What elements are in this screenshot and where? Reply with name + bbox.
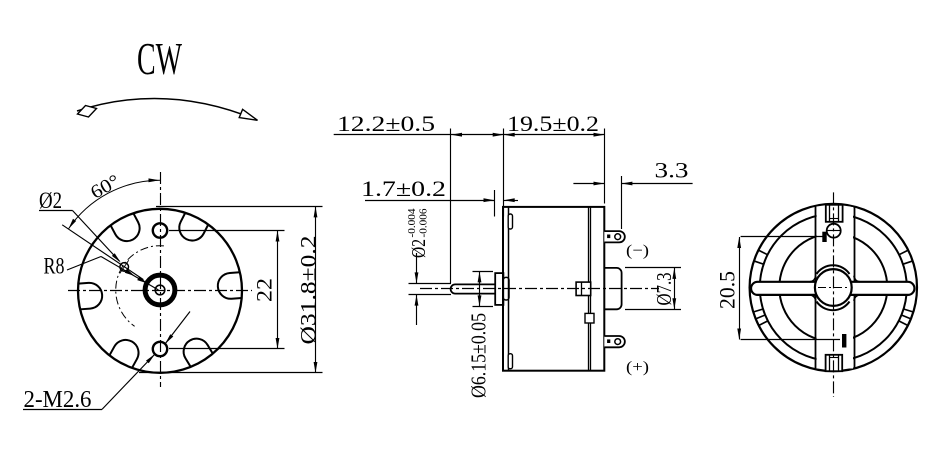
⌀2 hole centermark bbox=[120, 260, 129, 273]
rim slot upper-left bbox=[754, 250, 768, 264]
svg-text:-0.004: -0.004 bbox=[407, 208, 418, 238]
dimension ⌀6.15 ticks bbox=[473, 272, 494, 307]
label 1.7±0.2 bbox=[361, 176, 446, 201]
⌀2 leader bbox=[39, 211, 121, 263]
dimension 60° arc bbox=[68, 178, 160, 229]
motor face outer circle ⌀31.8 bbox=[78, 209, 242, 373]
vertical strap channel edges bbox=[816, 206, 855, 370]
dimension 20.5 line bbox=[737, 237, 741, 340]
extension line shaft tip bbox=[450, 129, 452, 284]
svg-text:2-M2.6: 2-M2.6 bbox=[24, 387, 92, 413]
rear view outer circle bbox=[750, 204, 917, 371]
hub eyebrow top bbox=[817, 265, 850, 274]
extension line front face bbox=[503, 129, 505, 217]
dimension line 12.2 / 19.5 bbox=[334, 133, 605, 137]
label R8 bbox=[44, 253, 65, 278]
extension line body rear bbox=[604, 129, 606, 204]
rear view vertical centerline bbox=[833, 192, 835, 397]
svg-text:(+): (+) bbox=[626, 359, 649, 376]
bushing crimp bump bbox=[503, 277, 509, 300]
rear view can circle bbox=[779, 234, 887, 342]
label 20.5 bbox=[715, 271, 740, 309]
terminal (+) bottom bbox=[604, 336, 625, 347]
side view shaft ⌀2 bbox=[451, 284, 496, 293]
label ⌀2 tolerance bbox=[407, 208, 430, 258]
label CW bbox=[137, 33, 182, 84]
2-M2.6 leader bbox=[23, 354, 155, 410]
label 22 bbox=[252, 278, 277, 302]
svg-text:(−): (−) bbox=[626, 243, 649, 260]
hole ⌀2 at 60° bbox=[120, 263, 129, 272]
rear hub circle bbox=[815, 269, 852, 306]
dimension 22 line bbox=[276, 231, 280, 350]
rear hole crosshair bbox=[826, 230, 842, 232]
dimension 1.7 bbox=[365, 190, 518, 217]
dimension 20.5 ext bottom bbox=[741, 334, 847, 348]
front tab top bbox=[508, 214, 512, 229]
extension line terminal tip bbox=[621, 176, 623, 229]
svg-text:CW: CW bbox=[137, 33, 182, 84]
rim slot lower-right bbox=[899, 309, 914, 326]
svg-text:R8: R8 bbox=[44, 253, 65, 278]
svg-text:Ø2: Ø2 bbox=[39, 188, 62, 213]
vent slot right bbox=[217, 272, 242, 299]
dimension 60° inclined extension line bbox=[62, 225, 143, 280]
dimension 22 extension lines bbox=[169, 231, 285, 349]
label ⌀2 bbox=[39, 188, 62, 213]
svg-text:1.7±0.2: 1.7±0.2 bbox=[361, 176, 446, 201]
label 3.3 bbox=[655, 158, 689, 183]
vent slot top-left bbox=[111, 213, 145, 245]
dimension ⌀2 shaft ext lines bbox=[409, 284, 452, 295]
front tab bottom bbox=[508, 354, 512, 369]
dimension 20.5 ext top bbox=[741, 232, 827, 242]
vertical strap channel fill bbox=[817, 207, 853, 369]
window fillets at arm/strip corners bbox=[810, 276, 860, 301]
dimension ⌀2 shaft arrows bbox=[415, 253, 419, 325]
dimension 3.3 bbox=[573, 182, 692, 186]
gearbox body outline bbox=[503, 207, 604, 371]
label ⌀7.3 bbox=[652, 273, 676, 306]
top tab bbox=[826, 205, 843, 222]
pitch circle arc R8 (dash-dot) bbox=[116, 246, 164, 327]
dimension ⌀7.3 line bbox=[672, 268, 676, 309]
svg-text:20.5: 20.5 bbox=[715, 271, 740, 309]
front view vertical centerline bbox=[160, 172, 162, 387]
R8 leader line bbox=[67, 257, 159, 291]
dimension ⌀6.15 line bbox=[478, 271, 482, 306]
front view horizontal centerline bbox=[68, 290, 252, 292]
rear view ring circle bbox=[760, 214, 907, 361]
label 2-M2.6 bbox=[24, 387, 92, 413]
can joint double line bbox=[589, 207, 591, 371]
bushing ⌀6.15 bbox=[495, 273, 503, 305]
svg-text:3.3: 3.3 bbox=[655, 158, 689, 183]
rear bearing box bbox=[576, 282, 591, 295]
mounting hole M2.6 bottom bbox=[153, 342, 167, 356]
R8 arrowheads bbox=[125, 269, 147, 283]
bottom tab bbox=[826, 355, 843, 371]
rear view horizontal centerline bbox=[818, 287, 850, 289]
hub boss circle bbox=[145, 275, 175, 305]
vent slot bottom-right bbox=[179, 334, 213, 367]
terminal (-) top bbox=[604, 231, 625, 242]
dimension ⌀7.3 ext lines bbox=[625, 268, 681, 310]
label ⌀31.8±0.2 bbox=[296, 236, 321, 345]
vent slot bottom-left bbox=[109, 335, 143, 368]
rear tab bbox=[585, 313, 594, 323]
vent slot top-right bbox=[175, 213, 208, 245]
front plate inner line bbox=[508, 207, 510, 371]
label ⌀6.15±0.05 bbox=[467, 313, 491, 398]
horizontal arm bbox=[751, 282, 914, 295]
svg-text:Ø31.8±0.2: Ø31.8±0.2 bbox=[296, 236, 321, 345]
rear hole ⌀2 bbox=[827, 224, 841, 238]
CW rotation arc bbox=[77, 98, 257, 120]
label (+) bbox=[626, 359, 649, 376]
vent slot left bbox=[78, 282, 103, 309]
hub eyebrow bottom bbox=[817, 302, 850, 311]
svg-text:Ø2: Ø2 bbox=[409, 239, 430, 258]
dimension ⌀31.8 extension lines bbox=[139, 207, 323, 373]
rim slot lower-left bbox=[753, 309, 768, 326]
shaft circle bbox=[155, 285, 165, 295]
svg-text:Ø6.15±0.05: Ø6.15±0.05 bbox=[467, 313, 491, 398]
svg-text:22: 22 bbox=[252, 278, 277, 302]
rear boss ⌀7.3 bbox=[604, 268, 621, 309]
side view centerline bbox=[420, 288, 659, 290]
label 12.2±0.5 bbox=[337, 111, 435, 136]
CW arc diamond end bbox=[78, 106, 97, 118]
2-M2.6 opposite arrow bbox=[165, 312, 190, 345]
svg-text:Ø7.3: Ø7.3 bbox=[652, 273, 676, 306]
dimension ⌀31.8 line bbox=[314, 206, 318, 373]
label 19.5±0.2 bbox=[507, 111, 599, 136]
rim slot upper-right bbox=[899, 250, 913, 264]
svg-text:12.2±0.5: 12.2±0.5 bbox=[337, 111, 435, 136]
svg-text:-0.006: -0.006 bbox=[419, 209, 430, 238]
CW arc open arrowhead bbox=[239, 109, 257, 120]
label 60° bbox=[87, 171, 123, 204]
svg-text:19.5±0.2: 19.5±0.2 bbox=[507, 111, 599, 136]
label (-) bbox=[626, 243, 649, 260]
mounting hole M2.6 top bbox=[153, 223, 167, 237]
